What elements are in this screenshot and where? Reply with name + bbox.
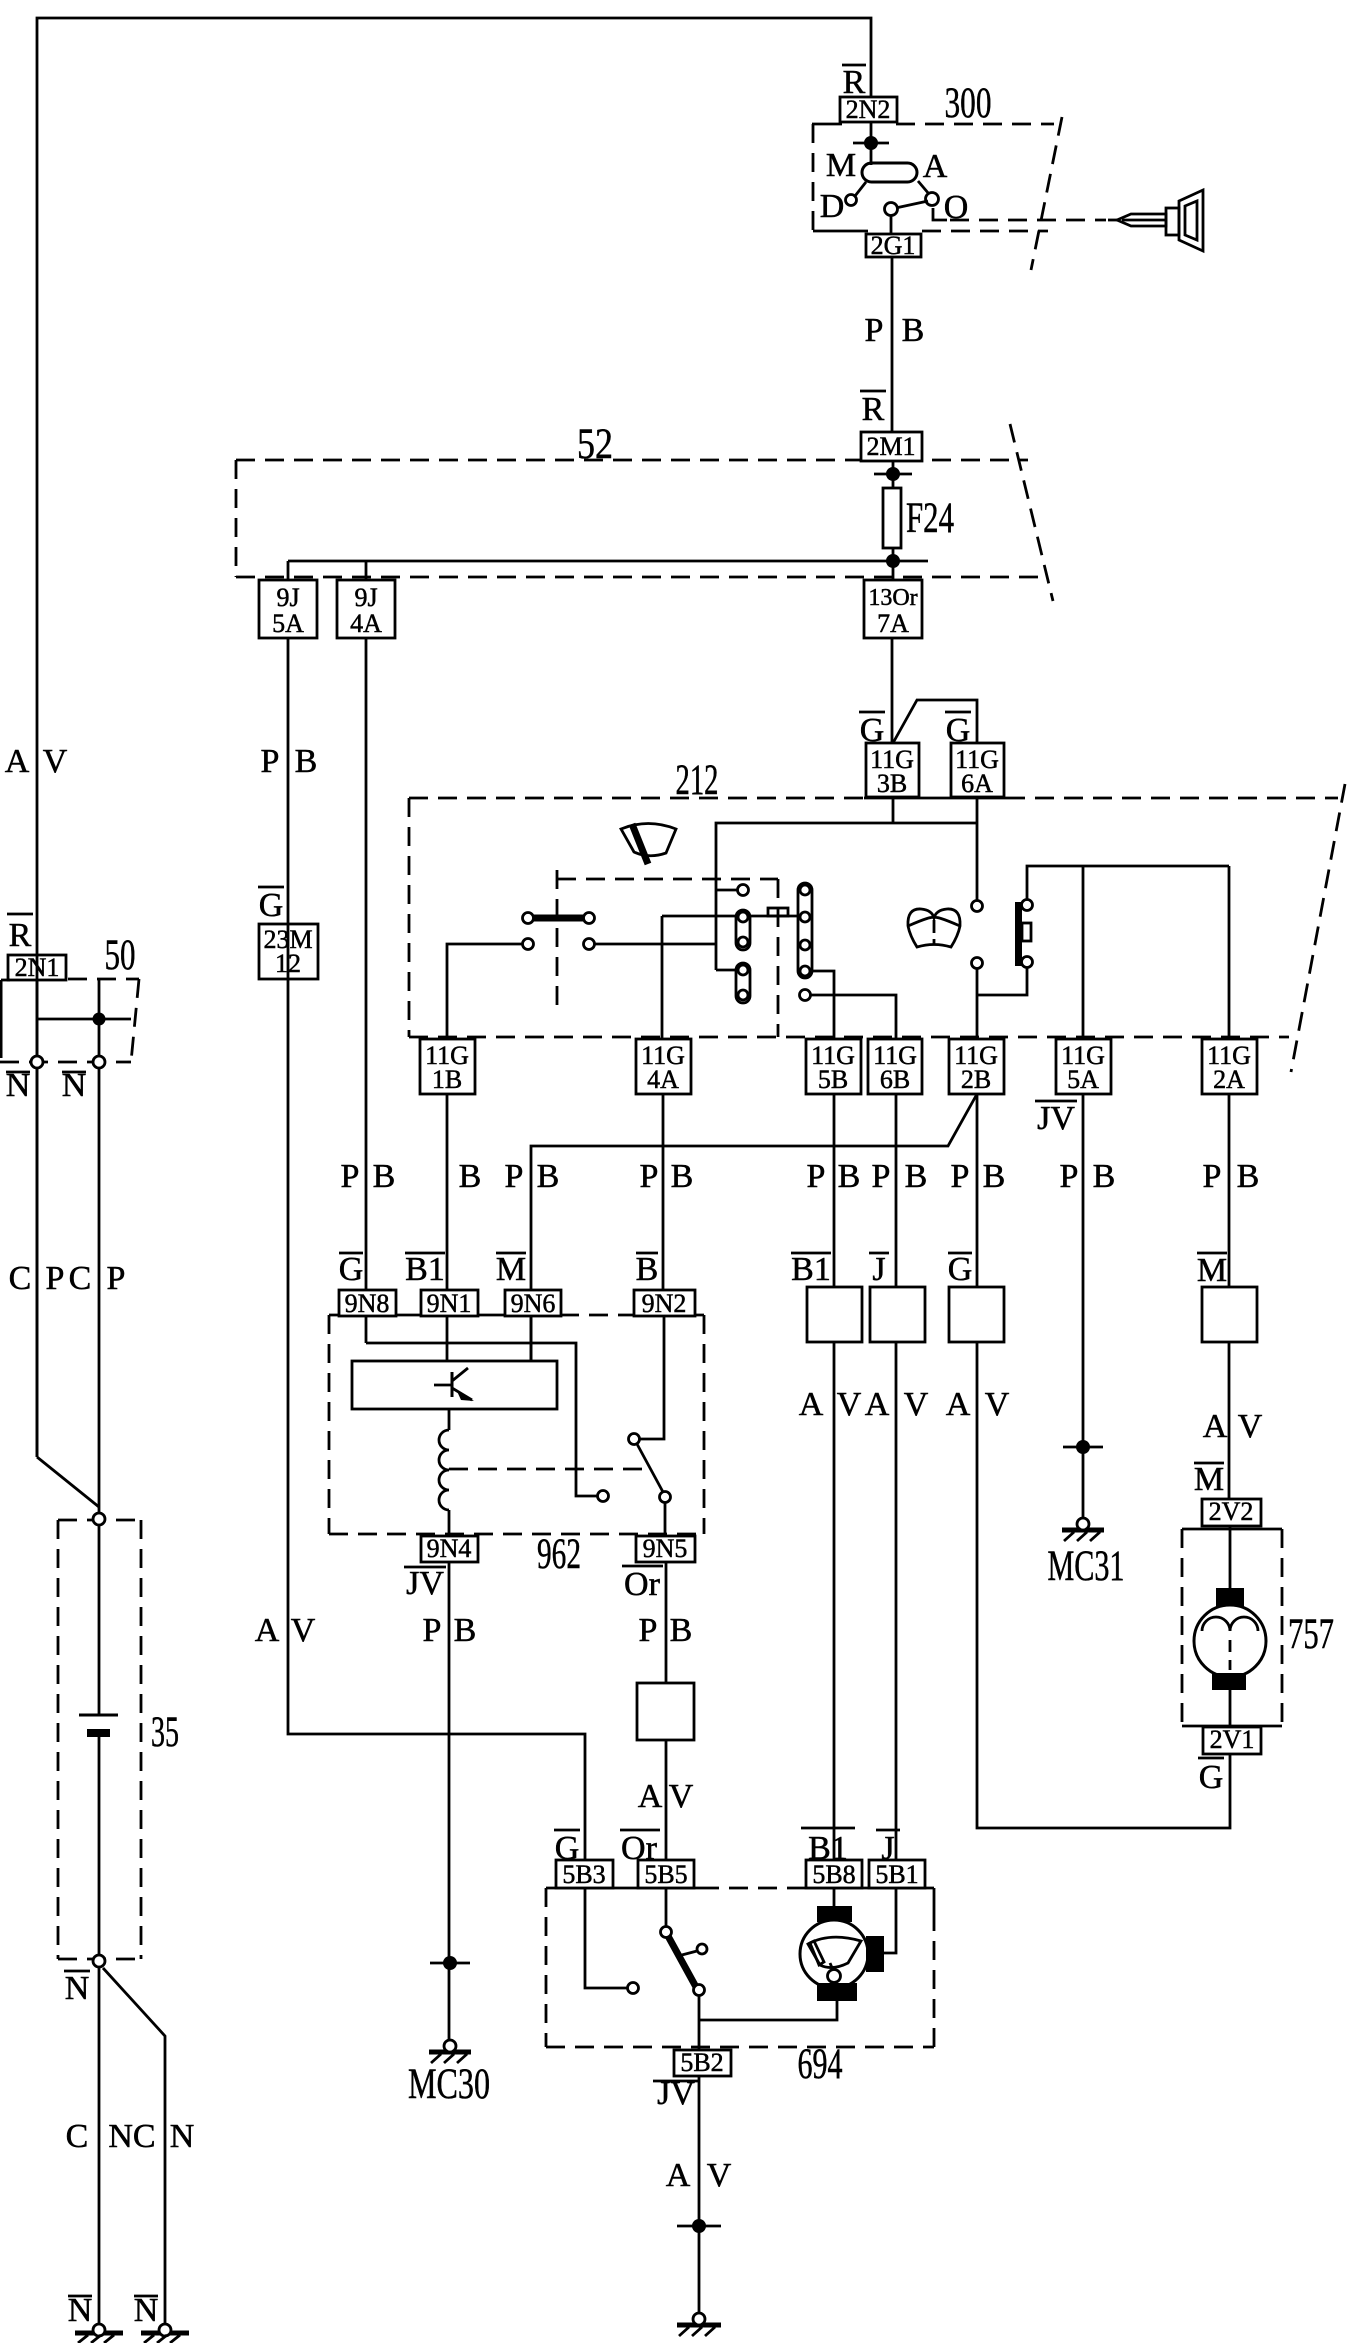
rotary switch left contact column <box>736 885 750 1004</box>
wire 11G 4A rotor feed <box>661 916 664 1039</box>
label G inline box <box>948 1251 973 1288</box>
wire 11G 4A to 9N2 <box>662 1094 665 1290</box>
contact O circle <box>918 181 939 206</box>
svg-text:P: P <box>639 1612 658 1649</box>
label JV wire 9N4 <box>404 1565 446 1602</box>
svg-text:B: B <box>671 1158 694 1195</box>
washer pump 757 symbol <box>1194 1588 1266 1690</box>
wire dashed link to ignition key <box>933 208 1106 220</box>
wire 11G 2A to 2V2 <box>1228 1094 1231 1499</box>
svg-text:5B8: 5B8 <box>812 1860 855 1889</box>
label P B wire 9J5A <box>261 743 318 780</box>
connector 5B2 <box>674 2050 731 2076</box>
wire 9N4 to ground MC30 <box>448 1562 451 2041</box>
svg-text:300: 300 <box>945 80 992 127</box>
relay arm pivot <box>629 1434 640 1445</box>
svg-text:13Or: 13Or <box>868 585 917 611</box>
svg-text:C: C <box>66 2118 89 2155</box>
svg-text:P: P <box>865 312 884 349</box>
wire feed rail in 212 <box>716 823 977 970</box>
wiper switch thick arm <box>668 1936 696 1987</box>
svg-text:P: P <box>1203 1158 1222 1195</box>
wire fuse bus in 52 <box>288 560 928 563</box>
ground below 5B2 <box>677 2313 721 2336</box>
washer jet icon <box>908 909 960 947</box>
svg-text:N: N <box>170 2118 195 2155</box>
connector 5B5 <box>638 1860 694 1888</box>
wire intermittent switch to 11G 1B <box>447 944 523 1039</box>
svg-text:P: P <box>1060 1158 1079 1195</box>
svg-text:212: 212 <box>676 757 719 804</box>
wire 5B3 to park contact <box>585 1888 627 1988</box>
switch position letters M A D O <box>820 147 969 226</box>
connector 2G1 <box>866 234 921 257</box>
wire 9N8 to relay plate <box>365 1316 368 1343</box>
label Or wire 9N5 <box>622 1566 663 1603</box>
label J inline box <box>869 1251 889 1288</box>
wire 11G 5A to ground MC31 <box>1082 1094 1085 1522</box>
svg-text:B: B <box>373 1158 396 1195</box>
svg-text:9N4: 9N4 <box>427 1534 472 1563</box>
connector 9N8 <box>339 1290 396 1316</box>
wire diagonal join above battery <box>37 1457 99 1507</box>
connector 11G 6B <box>868 1039 922 1094</box>
svg-text:A: A <box>1203 1408 1228 1445</box>
svg-text:2M1: 2M1 <box>866 432 915 461</box>
label B wire 9N2 <box>636 1251 659 1288</box>
label A V wire 6B <box>865 1386 929 1423</box>
svg-text:MC30: MC30 <box>408 2061 490 2108</box>
svg-text:5B: 5B <box>818 1065 848 1094</box>
svg-text:52: 52 <box>577 421 613 468</box>
wire 9N6 into relay <box>530 1316 533 1361</box>
svg-text:2N1: 2N1 <box>15 953 60 982</box>
wire rail to 11G 5A <box>1082 866 1085 1039</box>
svg-text:N: N <box>65 1970 90 2007</box>
svg-text:A: A <box>638 1778 663 1815</box>
washer pump 757 outline <box>1182 1529 1282 1726</box>
label G above 5B3 <box>554 1830 580 1867</box>
connector 5B1 <box>869 1860 925 1888</box>
label G wire 3B <box>859 712 885 749</box>
battery plates <box>79 1715 118 1733</box>
svg-text:B: B <box>983 1158 1006 1195</box>
junction dot in 50 <box>93 1013 106 1026</box>
ignition rotor pill <box>862 163 917 182</box>
label P B wire 9N2 <box>640 1158 694 1195</box>
label A V wire 2A <box>1203 1408 1263 1445</box>
svg-text:V: V <box>837 1386 862 1423</box>
wire 9N2 to relay arm pivot <box>640 1316 664 1439</box>
svg-text:9N2: 9N2 <box>642 1289 687 1318</box>
svg-text:A: A <box>865 1386 890 1423</box>
label P B wire 9N5 <box>639 1612 693 1649</box>
svg-text:A: A <box>799 1386 824 1423</box>
label A V wire 5B5 <box>638 1778 694 1815</box>
connector 11G 4A <box>636 1039 691 1094</box>
relay 962 dashed outline <box>329 1315 704 1534</box>
wire pushbutton to top rail <box>1027 866 1229 900</box>
svg-text:5B5: 5B5 <box>644 1860 687 1889</box>
svg-text:5B3: 5B3 <box>562 1860 605 1889</box>
svg-text:G: G <box>339 1251 364 1288</box>
contact D circle <box>846 182 867 206</box>
svg-text:2B: 2B <box>961 1065 991 1094</box>
svg-text:R: R <box>862 391 885 428</box>
svg-text:Or: Or <box>624 1566 661 1603</box>
wire 2N1 feed through switch 50 <box>36 980 39 1056</box>
battery 35 dashed outline <box>58 1520 141 1959</box>
connector 9N1 <box>421 1290 478 1316</box>
relay 962 driver block <box>352 1361 557 1409</box>
svg-text:R: R <box>9 917 32 954</box>
svg-text:3B: 3B <box>877 769 907 798</box>
label JV below 5B2 <box>653 2075 699 2112</box>
park contact in 694 <box>628 1983 639 1994</box>
wiper motor 694 outline <box>546 1888 934 2047</box>
svg-text:G: G <box>860 712 885 749</box>
wire 13Or 7A to 11G 3B <box>891 638 894 743</box>
svg-text:35: 35 <box>151 1709 179 1756</box>
connector 2V1 <box>1203 1727 1261 1754</box>
svg-text:B1: B1 <box>405 1251 445 1288</box>
wire coil tail <box>448 1510 451 1536</box>
svg-text:B: B <box>459 1158 482 1195</box>
connector 11G 2B <box>949 1039 1004 1094</box>
svg-text:G: G <box>948 1251 973 1288</box>
wire stub to contact column <box>716 889 738 892</box>
svg-text:P: P <box>107 1260 126 1297</box>
wire arm to 5B2 <box>698 1996 701 2050</box>
relay fixed contact <box>598 1491 609 1502</box>
svg-text:J: J <box>872 1251 885 1288</box>
connector 5B3 <box>556 1860 613 1888</box>
svg-text:D: D <box>820 188 845 225</box>
terminal N circle left <box>31 1056 43 1068</box>
wire pump to 2V1 <box>1229 1688 1232 1727</box>
wire 11G 6B to 5B1 <box>895 1094 898 1860</box>
switch unit 300 dashed outline <box>812 117 1062 270</box>
wiper switch side contact <box>678 1944 707 1956</box>
svg-text:9N8: 9N8 <box>345 1289 390 1318</box>
svg-text:P: P <box>261 743 280 780</box>
label G below 2V1 <box>1198 1758 1224 1796</box>
wire rail bottom to contact <box>716 969 738 972</box>
label N bottom right <box>134 2292 159 2329</box>
svg-text:JV: JV <box>1037 1100 1075 1137</box>
svg-text:B: B <box>902 312 925 349</box>
svg-text:V: V <box>43 743 68 780</box>
svg-text:B: B <box>838 1158 861 1195</box>
svg-text:NC: NC <box>108 2118 155 2155</box>
svg-text:2V1: 2V1 <box>1210 1725 1255 1754</box>
connector 11G 5A <box>1056 1039 1111 1094</box>
wire 50 internal link <box>37 1018 131 1021</box>
connector 13Or 7A <box>864 580 922 638</box>
svg-text:F24: F24 <box>906 495 954 542</box>
wire moving contact to 2G1 <box>890 214 893 234</box>
connector 9N4 <box>421 1536 478 1562</box>
label C P right pair <box>69 1260 126 1297</box>
terminal N circle below battery <box>93 1955 105 1967</box>
svg-text:A: A <box>923 148 948 185</box>
wire 9J 4A to 9N8 <box>365 638 368 1290</box>
wire rotor row to contact <box>662 915 800 918</box>
svg-text:A: A <box>5 743 30 780</box>
svg-text:5B2: 5B2 <box>680 2048 723 2077</box>
svg-text:9N1: 9N1 <box>427 1289 472 1318</box>
label B1 above 5B8 <box>801 1828 855 1867</box>
label A V wire 2B <box>946 1386 1010 1423</box>
label N terminal left <box>6 1067 31 1104</box>
wire relay coil to 9N4 <box>448 1409 451 1430</box>
connector 2V2 <box>1202 1499 1261 1526</box>
svg-text:MC31: MC31 <box>1048 1543 1125 1590</box>
svg-text:V: V <box>985 1386 1010 1423</box>
wire rail to 11G 2A <box>1228 866 1231 1039</box>
wire bus drop to 9J 4A <box>365 561 368 580</box>
connector 5B8 <box>806 1860 862 1888</box>
relay arm contact <box>660 1492 671 1503</box>
connector 11G 2A <box>1202 1039 1257 1094</box>
wire 5B2 to ground <box>698 2076 701 2316</box>
connector 11G 1B <box>420 1039 475 1094</box>
svg-text:2G1: 2G1 <box>871 231 916 260</box>
svg-text:G: G <box>946 712 971 749</box>
connector 11G 6B label <box>873 1041 917 1094</box>
wire 5B8 to motor <box>833 1888 836 1906</box>
svg-text:M: M <box>826 147 856 184</box>
svg-text:P: P <box>341 1158 360 1195</box>
svg-text:JV: JV <box>406 1565 444 1602</box>
rotary switch wiper tab <box>768 908 788 916</box>
connector 9J 4A label <box>350 583 382 638</box>
label G wire 23M <box>258 887 284 924</box>
junction dot MC30 wire <box>430 1956 470 1970</box>
svg-text:B: B <box>295 743 318 780</box>
label P B wire 5B <box>807 1158 861 1195</box>
connector 11G 4A label <box>641 1041 685 1094</box>
relay coil <box>439 1430 449 1510</box>
label P B wire 2G1 <box>865 312 925 349</box>
svg-text:A: A <box>666 2157 691 2194</box>
svg-text:V: V <box>291 1612 316 1649</box>
svg-text:9J: 9J <box>354 583 377 612</box>
wire 11G 1B to 9N1 <box>446 1094 449 1361</box>
relay 962 coil-contact dashed link <box>449 1468 643 1471</box>
svg-text:6A: 6A <box>961 769 993 798</box>
wiper motor symbol in 694 <box>800 1906 884 2001</box>
wire branch to pushbutton <box>977 968 1027 995</box>
moving contact of 300 <box>885 201 929 216</box>
svg-text:50: 50 <box>105 932 136 979</box>
washer switch contacts <box>972 901 983 969</box>
svg-text:B: B <box>1237 1158 1260 1195</box>
svg-text:9J: 9J <box>276 583 299 612</box>
svg-text:P: P <box>505 1158 524 1195</box>
junction dot MC31 wire <box>1063 1440 1103 1454</box>
wire washer contact to 11G 2B <box>976 968 979 1039</box>
label A V wire 23M <box>255 1612 316 1649</box>
svg-text:5A: 5A <box>272 609 304 638</box>
svg-text:M: M <box>496 1251 526 1288</box>
inline connector on wire J <box>870 1287 925 1342</box>
label Or above 5B5 <box>620 1830 660 1867</box>
wire relay plate to fixed contact <box>366 1343 597 1496</box>
label A V left feed wire <box>5 743 68 780</box>
wiper switch 212 dashed outline <box>409 784 1345 1072</box>
label P B wire 2A <box>1203 1158 1260 1195</box>
svg-text:P: P <box>423 1612 442 1649</box>
svg-text:B1: B1 <box>791 1251 831 1288</box>
wire inside 300 from supply dot to rotor <box>870 122 873 165</box>
wire motor return <box>699 2001 837 2020</box>
svg-text:B: B <box>454 1612 477 1649</box>
svg-text:12: 12 <box>275 949 301 978</box>
wire bus drop to 9J 5A <box>287 561 290 580</box>
svg-text:P: P <box>951 1158 970 1195</box>
svg-text:V: V <box>904 1386 929 1423</box>
inline connector on wire B1 <box>807 1287 862 1342</box>
wire 9N5 to 5B5 <box>665 1562 668 1860</box>
svg-text:G: G <box>1199 1759 1224 1796</box>
svg-text:962: 962 <box>537 1531 581 1578</box>
connector 9J 4A <box>337 580 395 638</box>
svg-text:B: B <box>670 1612 693 1649</box>
label R wire to 2N2 <box>842 64 866 101</box>
label B1 inline box <box>791 1251 831 1288</box>
wire 11G 3B into 212 <box>892 797 895 823</box>
label C P left pair <box>9 1260 65 1297</box>
junction dot above fuse <box>874 467 912 481</box>
label P B wire 9J4A <box>341 1158 396 1195</box>
svg-text:V: V <box>1238 1408 1263 1445</box>
label P B wire 2B <box>951 1158 1006 1195</box>
wire relay arm contact to 9N5 <box>664 1503 667 1536</box>
wiper switch arm bottom contact <box>694 1985 705 1996</box>
wire 2M1 through fuse to 13Or 7A <box>892 461 895 580</box>
connector 9J 5A label <box>272 583 304 638</box>
label B1 wire 9N1 <box>405 1251 445 1288</box>
svg-text:B: B <box>537 1158 560 1195</box>
label P B wire 6B <box>872 1158 928 1195</box>
relay moving arm <box>637 1444 663 1492</box>
svg-text:V: V <box>669 1778 694 1815</box>
wire branch to 11G 6A <box>893 700 977 743</box>
label M wire 9N6 <box>496 1251 526 1288</box>
connector 11G 2B label <box>954 1041 998 1094</box>
label A V wire 5B <box>799 1386 862 1423</box>
wire 11G 5B to 5B8 <box>833 1094 836 1860</box>
connector 11G 5A label <box>1061 1041 1105 1094</box>
svg-text:P: P <box>46 1260 65 1297</box>
svg-text:V: V <box>707 2157 732 2194</box>
svg-text:7A: 7A <box>877 609 909 638</box>
connector 11G 2A label <box>1207 1041 1251 1094</box>
svg-text:5B1: 5B1 <box>875 1860 918 1889</box>
wire 2V2 to pump <box>1229 1526 1232 1590</box>
ground MC31 <box>1062 1518 1104 1541</box>
wire contact to 11G 6B <box>810 995 896 1039</box>
label C NC N battery wires <box>66 2118 195 2155</box>
wire battery negative lead <box>98 1734 101 2327</box>
svg-text:A: A <box>946 1386 971 1423</box>
wire 9J 5A to 23M 12 to 5B3 <box>288 638 585 1860</box>
washer pushbutton <box>1015 900 1033 968</box>
svg-text:2N2: 2N2 <box>846 95 891 124</box>
junction supply dot in 300 <box>853 136 889 150</box>
label M inline box <box>1197 1252 1227 1289</box>
wire intermittent switch to feed rail <box>595 943 716 946</box>
svg-text:4A: 4A <box>350 609 382 638</box>
connector 11G 5B label <box>811 1041 855 1094</box>
wiper blade icon in 212 <box>621 824 676 865</box>
wire 11G 2B branch to 9N6 <box>531 1094 977 1361</box>
inline connector on wire G <box>949 1287 1004 1342</box>
label N terminal right <box>62 1067 87 1104</box>
label R wire to 2M1 <box>860 391 886 428</box>
inner dashed sub-box of 212 <box>557 870 778 1037</box>
label JV wire 11G 5A <box>1035 1100 1077 1137</box>
connector 9N5 <box>636 1536 695 1562</box>
connector 23M 12 label <box>263 925 312 978</box>
wire 11G 6A to washer contact <box>976 797 979 901</box>
svg-text:B: B <box>905 1158 928 1195</box>
wire battery to chassis branch <box>103 1968 165 2327</box>
wiper switch arm top contact <box>661 1927 672 1938</box>
terminal N circle right <box>93 1056 105 1068</box>
wire 11G 2B down to washer pump return <box>977 1094 1230 1828</box>
svg-text:N: N <box>68 2292 93 2329</box>
svg-text:757: 757 <box>1288 1611 1334 1658</box>
svg-text:B: B <box>636 1251 659 1288</box>
connector 2N2 <box>840 97 897 122</box>
ground right chassis <box>141 2324 189 2343</box>
label N bottom left <box>68 2292 93 2329</box>
label M above 2V2 <box>1194 1461 1224 1498</box>
connector 11G 3B <box>866 743 919 797</box>
connector 9J 5A <box>259 580 317 638</box>
svg-text:P: P <box>807 1158 826 1195</box>
svg-text:C: C <box>9 1260 32 1297</box>
label R wire to 2N1 <box>7 914 33 954</box>
fuse F24 <box>883 488 901 548</box>
wire 5B1 to motor brush <box>884 1888 896 1953</box>
label G wire 6A <box>945 712 971 749</box>
svg-text:P: P <box>872 1158 891 1195</box>
label J above 5B1 <box>876 1830 900 1867</box>
junction dot 5B2 ground wire <box>677 2219 721 2233</box>
connector 9N2 <box>634 1290 695 1316</box>
label G wire 9N8 <box>339 1251 364 1288</box>
junction dot below fuse <box>886 554 900 568</box>
ground MC30 <box>429 2040 471 2063</box>
connector 11G 6A <box>951 743 1004 797</box>
svg-text:9N5: 9N5 <box>643 1534 688 1563</box>
ignition key icon <box>1108 190 1203 251</box>
junction circle above battery <box>93 1513 105 1525</box>
connector 11G 1B label <box>425 1041 469 1094</box>
wire 50 terminal N to junction <box>36 1068 39 1457</box>
svg-text:B: B <box>1093 1158 1116 1195</box>
svg-text:G: G <box>259 887 284 924</box>
inline connector on wire Or <box>637 1683 694 1740</box>
svg-text:2A: 2A <box>1213 1065 1245 1094</box>
svg-text:M: M <box>1197 1252 1227 1289</box>
connector 13Or 7A label <box>868 585 917 638</box>
svg-text:1B: 1B <box>432 1065 462 1094</box>
svg-text:5A: 5A <box>1067 1065 1099 1094</box>
